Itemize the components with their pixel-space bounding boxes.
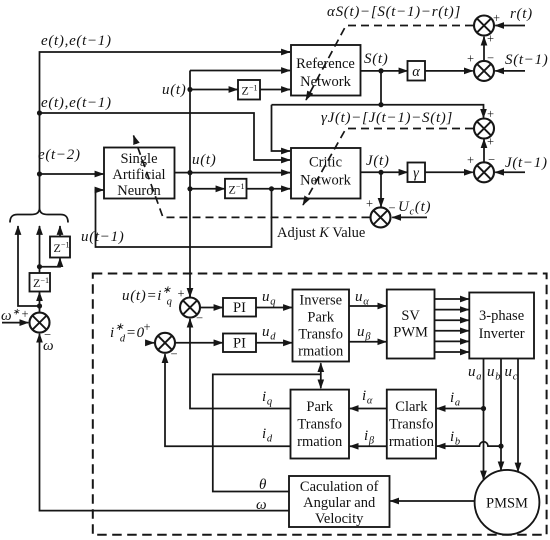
svg-text:S(t): S(t) xyxy=(364,51,388,67)
motor PMSM xyxy=(475,470,540,535)
svg-text:+: + xyxy=(467,52,474,66)
svg-text:−: − xyxy=(487,51,494,65)
wire u beta xyxy=(349,341,386,343)
summing junction sum2 S(t-1) xyxy=(474,61,494,81)
wire Z4 out to brace xyxy=(59,226,61,237)
svg-text:αS(t)−[S(t−1)−r(t)]: αS(t)−[S(t−1)−r(t)] xyxy=(327,4,461,20)
wire u(t-1) feedback into neuron xyxy=(96,189,272,247)
svg-text:Caculation of: Caculation of xyxy=(300,479,379,495)
wire gamma to sum4 xyxy=(425,171,473,173)
wire PMSM to Caculation xyxy=(390,500,474,502)
wire e(t) branch to brace xyxy=(18,226,40,306)
wire phase a down to PMSM xyxy=(483,359,485,480)
summing junction speed xyxy=(30,313,50,333)
brace over e inputs xyxy=(10,210,68,223)
adaptation dashed arrow to Reference xyxy=(306,26,473,101)
svg-text:ω: ω xyxy=(43,338,54,354)
wire iq feedback xyxy=(190,319,291,409)
delay Z2 xyxy=(225,179,247,199)
svg-text:Inverse: Inverse xyxy=(299,293,342,309)
wire S(t) output to alpha xyxy=(361,70,408,72)
wire S feedback line to sum3 xyxy=(272,105,484,118)
svg-text:3-phase: 3-phase xyxy=(479,308,524,324)
svg-text:+: + xyxy=(493,11,500,25)
wire ib to Clark with hop xyxy=(437,442,501,446)
wire e(t-1) branch into Z4 xyxy=(40,258,61,267)
node J(t) junction xyxy=(378,170,383,175)
summing junction sum3 gamma eq xyxy=(474,119,494,139)
svg-text:rmation: rmation xyxy=(298,344,344,360)
svg-text:+: + xyxy=(21,307,28,321)
wire u(t) vertical main xyxy=(189,71,191,298)
svg-text:−: − xyxy=(170,347,177,361)
svg-text:Network: Network xyxy=(300,74,351,90)
svg-text:Clark: Clark xyxy=(395,399,428,415)
block Single Artificial Neuron xyxy=(104,148,175,200)
svg-text:PI: PI xyxy=(233,336,246,352)
node ia tap xyxy=(481,406,486,411)
node e-bus/e(t-2) junction xyxy=(37,171,42,176)
svg-text:rmation: rmation xyxy=(297,434,343,450)
wire alpha to sum2 xyxy=(425,70,473,72)
node u(t) Z2 branch xyxy=(187,186,192,191)
block Inverse Park Transformation xyxy=(293,290,350,362)
svg-text:−: − xyxy=(196,311,203,325)
controller PI2 xyxy=(223,334,256,353)
wire sumd to PI2 xyxy=(175,342,223,344)
wire Z1 out to Reference input 3 xyxy=(260,89,290,91)
wire i beta xyxy=(350,445,387,447)
svg-text:Park: Park xyxy=(306,399,333,415)
svg-text:J(t−1): J(t−1) xyxy=(505,155,548,171)
svg-text:+: + xyxy=(487,107,494,121)
wire u(t) into Z2 xyxy=(190,188,225,190)
svg-text:Artificial: Artificial xyxy=(112,167,165,183)
node u(t-1) branch xyxy=(269,186,274,191)
wire S(t-1) input xyxy=(495,70,525,72)
wire sumq to PI1 xyxy=(200,307,223,309)
node ib tap xyxy=(498,444,503,449)
wire e(t-1) up to brace xyxy=(39,226,41,267)
summing junction sum4 J(t-1) xyxy=(474,162,494,182)
svg-text:+: + xyxy=(467,153,474,167)
svg-text:PI: PI xyxy=(233,300,246,316)
svg-text:J(t): J(t) xyxy=(366,153,390,169)
node u(t) Z1 branch xyxy=(187,87,192,92)
wire speed error up into Z3 xyxy=(39,292,41,312)
svg-text:PWM: PWM xyxy=(393,325,428,341)
wire u(t) into Z1 xyxy=(190,89,238,91)
block 3-phase Inverter xyxy=(469,293,534,359)
svg-text:ω: ω xyxy=(256,497,267,513)
wire theta double arrow xyxy=(320,363,322,388)
svg-text:−: − xyxy=(388,201,395,215)
svg-text:PMSM: PMSM xyxy=(486,496,528,512)
node e(t-1) branch xyxy=(37,264,42,269)
gain alpha xyxy=(408,61,426,81)
summing junction sum5 Uc xyxy=(371,207,391,227)
summing junction sumq xyxy=(180,298,200,318)
svg-text:rmation: rmation xyxy=(389,434,435,450)
summing junction sum1 r(t) xyxy=(474,16,494,36)
controller PI1 xyxy=(223,298,256,317)
node e(t) branch xyxy=(37,303,42,308)
svg-text:Transfo: Transfo xyxy=(389,417,434,433)
svg-text:u(t): u(t) xyxy=(192,152,216,168)
wire S(t) down xyxy=(380,71,382,105)
wire theta to transforms xyxy=(213,374,321,491)
wire i alpha xyxy=(350,408,387,410)
svg-text:Adjust K Value: Adjust K Value xyxy=(277,225,365,241)
block Reference Network xyxy=(291,45,361,96)
wire e-line2 to Critic input 2 xyxy=(40,113,291,160)
wire u(t) to Reference input 2 xyxy=(190,70,290,72)
summing junction sumd xyxy=(155,333,175,353)
svg-text:Critic: Critic xyxy=(309,155,342,171)
block SV PWM xyxy=(387,290,435,359)
svg-text:e(t),e(t−1): e(t),e(t−1) xyxy=(41,33,112,49)
svg-text:+: + xyxy=(143,320,150,334)
wire u alpha xyxy=(349,305,386,307)
svg-text:Transfo: Transfo xyxy=(297,417,342,433)
wire id feedback xyxy=(165,354,291,446)
wire S to Critic input 1 xyxy=(272,105,291,151)
wire e(t-2) into neuron xyxy=(40,173,104,175)
wire u(t) arrow into sumq xyxy=(189,290,191,297)
svg-text:Transfo: Transfo xyxy=(298,327,343,343)
wires SVPWM to inverter six arrows xyxy=(435,299,469,352)
gain gamma xyxy=(408,163,426,183)
node S(t) junction xyxy=(378,68,383,73)
svg-text:SV: SV xyxy=(401,308,420,324)
wire phase b down to PMSM xyxy=(500,359,502,471)
svg-text:Uc(t): Uc(t) xyxy=(398,199,431,218)
wire J(t) output to gamma xyxy=(361,171,408,173)
wire e-line1 arrowhead into Reference xyxy=(282,51,290,53)
wire neuron output u(t) to vertical xyxy=(175,172,191,174)
svg-text:S(t−1): S(t−1) xyxy=(505,52,548,68)
delay Z4 xyxy=(50,237,70,258)
wire u(t) to Critic input 3 xyxy=(190,172,290,174)
svg-text:r(t): r(t) xyxy=(510,6,533,22)
wire ia to Clark xyxy=(437,408,484,410)
svg-text:θ: θ xyxy=(259,477,267,493)
block Caculation of Angular and Velocity xyxy=(289,476,390,527)
wire phase c down to PMSM xyxy=(517,359,519,472)
block Critic Network xyxy=(291,148,361,199)
wire e-bus vertical xyxy=(40,52,291,211)
svg-text:γJ(t)−[J(t−1)−S(t)]: γJ(t)−[J(t−1)−S(t)] xyxy=(321,110,453,126)
svg-text:e(t),e(t−1): e(t),e(t−1) xyxy=(41,95,112,111)
svg-text:−: − xyxy=(488,153,495,167)
svg-text:Park: Park xyxy=(307,310,334,326)
node S line junction xyxy=(378,102,383,107)
wire Z3 top xyxy=(39,267,41,273)
svg-text:Inverter: Inverter xyxy=(479,326,525,342)
svg-text:Single: Single xyxy=(120,151,157,167)
svg-text:α: α xyxy=(412,64,420,80)
wire Z2 out to Critic input 4 xyxy=(247,188,291,190)
wire PI2 to InvPark xyxy=(256,342,292,344)
adjust K dashed arrow through neuron xyxy=(134,136,370,218)
wire Uc(t) input xyxy=(392,216,427,218)
svg-text:e(t−2): e(t−2) xyxy=(38,147,81,163)
node u(t) output junction xyxy=(187,170,192,175)
wire omega feedback xyxy=(40,334,290,511)
wire sum2 up to sum1 xyxy=(483,37,485,61)
wire r(t) input xyxy=(495,25,525,27)
delay Z3 xyxy=(30,273,51,292)
wire PI1 to InvPark xyxy=(256,307,292,309)
block Clark Transformation xyxy=(387,390,436,459)
svg-text:u(t−1): u(t−1) xyxy=(81,229,124,245)
svg-text:+: + xyxy=(366,197,373,211)
wire id* into sumd xyxy=(146,342,154,344)
svg-text:u(t): u(t) xyxy=(162,82,186,98)
adaptation dashed arrow to Critic xyxy=(303,129,473,206)
svg-text:Velocity: Velocity xyxy=(315,511,364,527)
dashed subsystem box xyxy=(93,274,547,535)
svg-text:Network: Network xyxy=(300,173,351,189)
delay Z1 xyxy=(238,80,260,100)
svg-text:+: + xyxy=(177,287,184,301)
block Park Transformation xyxy=(291,390,350,459)
svg-text:Angular and: Angular and xyxy=(303,495,376,511)
wire sum4 up to sum3 xyxy=(483,139,485,162)
node e-bus/e-line2 junction xyxy=(37,110,42,115)
wire J(t-1) input xyxy=(495,171,525,173)
wire J(t) down to sum5 xyxy=(380,172,382,207)
wire omega star input xyxy=(2,322,28,324)
